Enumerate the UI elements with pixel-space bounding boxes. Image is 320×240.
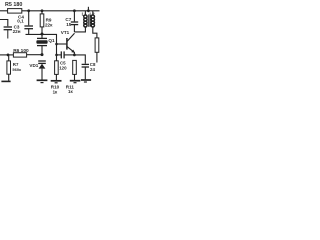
svg-text:Q1: Q1 (48, 38, 55, 43)
wire C4 top lead (28, 11, 30, 25)
svg-text:560к: 560к (12, 67, 21, 72)
wire R11 bottom stub (74, 74, 76, 80)
wire R7 top stub (8, 55, 10, 61)
wire emitter down (73, 52, 75, 55)
wire C3 bottom stub (faded in scan) (7, 30, 9, 39)
transistor VT1 (67, 33, 75, 53)
node junction on top rail for C4 (27, 9, 30, 12)
wire R6 to VD1 node (27, 54, 42, 56)
ground R7 (1, 80, 10, 82)
transformer core (88, 14, 90, 26)
svg-text:L1: L1 (82, 12, 88, 17)
wire supply stub up (87, 7, 89, 11)
varactor VD1 (38, 61, 46, 80)
wire mid horizontal to base corner (26, 34, 57, 60)
resistor R6 (13, 53, 26, 57)
node junction emitter/R11/C5 (73, 54, 76, 57)
svg-text:1к: 1к (53, 89, 58, 94)
wire R9 bottom stub (41, 27, 43, 35)
ground VD1 (37, 80, 48, 82)
node junction C5 left (55, 54, 58, 57)
wire C8 bottom lead (84, 67, 86, 79)
wire C3 input from left edge (0, 20, 8, 27)
capacitor C7 (71, 22, 78, 25)
wire L1 top lead (84, 11, 86, 16)
crystal Q1 (36, 34, 47, 54)
svg-text:15: 15 (66, 22, 72, 27)
svg-text:22н: 22н (13, 29, 21, 34)
svg-text:22к: 22к (45, 22, 53, 27)
wire R9 top stub (41, 11, 43, 14)
wire L2 top lead (92, 11, 94, 16)
svg-text:R6 100: R6 100 (13, 48, 29, 54)
svg-text:0,1: 0,1 (17, 19, 24, 24)
svg-text:R5 180: R5 180 (5, 2, 22, 8)
wire C4 bottom lead (28, 29, 30, 35)
wire base horizontal (57, 43, 67, 45)
wire R7 bottom stub (8, 74, 10, 81)
node junction top rail supply tap (87, 9, 90, 12)
capacitor C8 (82, 64, 89, 67)
wire left row to R6 (0, 54, 13, 56)
node junction Q1/VD1 (41, 53, 44, 56)
capacitor C4 (24, 26, 33, 29)
wire L2 bottom to R8 (93, 27, 97, 38)
svg-text:120: 120 (59, 66, 67, 71)
resistor R10 (55, 61, 59, 75)
resistor R7 (7, 61, 11, 74)
svg-text:VD1: VD1 (29, 63, 38, 68)
svg-text:R7: R7 (13, 62, 19, 67)
resistor R9 (40, 14, 44, 27)
node junction on top rail for R9 (41, 9, 44, 12)
svg-text:VT1: VT1 (61, 30, 70, 35)
resistor R8 right edge (95, 38, 99, 52)
svg-text:24: 24 (90, 67, 95, 72)
capacitor C3 (4, 27, 12, 30)
wire C7 top lead (73, 11, 75, 22)
resistor R11 (73, 60, 77, 74)
ground R11 (70, 81, 81, 83)
node junction base wire (55, 43, 58, 46)
capacitor C5 (57, 51, 75, 58)
wire emitter row to C8 (74, 55, 85, 64)
node junction C3/R6/R7 (7, 54, 10, 57)
wire R8 bottom stub (96, 52, 98, 62)
wire top rail right segment (22, 10, 100, 12)
resistor R5 (8, 9, 22, 14)
svg-text:L2: L2 (90, 12, 96, 17)
wire top rail left segment (0, 10, 8, 12)
wire C7 bottom / collector node (73, 25, 75, 32)
ground R10 (51, 81, 62, 83)
svg-text:1к: 1к (68, 89, 73, 94)
inductor L1 winding (84, 15, 87, 27)
node junction R9/Q1 (41, 33, 44, 36)
wire collector to L1 bottom (74, 27, 85, 32)
inductor L2 winding (91, 15, 94, 27)
ground C8 (81, 80, 91, 82)
node junction C7 top (73, 9, 76, 12)
wire R10 bottom stub (55, 74, 57, 80)
